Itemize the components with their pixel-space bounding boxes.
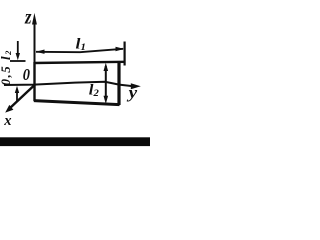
l2 lower arrowhead bbox=[104, 96, 109, 104]
0.5 l2 upper dimension arrow bbox=[17, 41, 19, 55]
svg-text:z: z bbox=[24, 7, 32, 29]
svg-text:y: y bbox=[126, 83, 137, 102]
y-axis bbox=[4, 82, 133, 86]
svg-text:x: x bbox=[3, 113, 12, 129]
rectangle plate left edge bbox=[33, 62, 35, 101]
l2 upper arrowhead bbox=[104, 63, 109, 71]
0.5 l2 lower dimension arrow bbox=[16, 92, 18, 101]
l1 dimension line bbox=[36, 49, 123, 52]
rectangle plate right edge bbox=[117, 62, 120, 106]
svg-text:0: 0 bbox=[23, 65, 30, 84]
l1 right arrowhead bbox=[116, 47, 125, 51]
x-axis bbox=[10, 85, 35, 109]
l1 left arrowhead bbox=[36, 50, 45, 54]
l2 dimension arrow (double headed) bbox=[105, 66, 107, 100]
bottom black bar bbox=[0, 137, 150, 146]
rectangle plate bottom edge bbox=[34, 101, 120, 105]
y-axis arrowhead bbox=[131, 83, 141, 89]
l1 extension line bbox=[123, 42, 125, 66]
0.5 l2 upper tick bbox=[10, 60, 26, 62]
z-axis bbox=[34, 22, 36, 100]
z-axis arrowhead bbox=[32, 13, 37, 25]
rectangle plate top edge bbox=[34, 62, 126, 63]
x-axis arrowhead bbox=[5, 105, 13, 113]
